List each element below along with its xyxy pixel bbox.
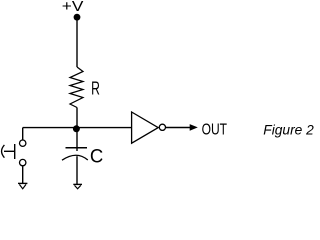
svg-text:OUT: OUT [202, 122, 228, 139]
svg-text:Figure 2: Figure 2 [263, 122, 314, 138]
svg-text:+V: +V [62, 0, 84, 15]
svg-text:C: C [90, 146, 103, 167]
svg-text:R: R [91, 77, 100, 98]
